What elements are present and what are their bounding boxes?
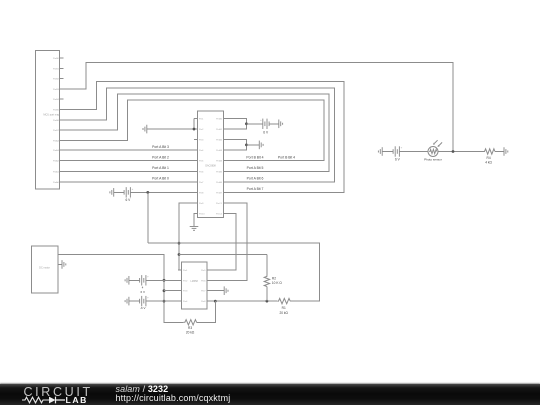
svg-text:6 V: 6 V xyxy=(126,198,132,202)
value label 6 V (V1) xyxy=(126,198,132,202)
svg-text:Pin8: Pin8 xyxy=(201,301,206,303)
svg-text:PinB4: PinB4 xyxy=(216,161,223,163)
value label 6 V (V5) xyxy=(395,158,401,162)
svg-text:PinB3: PinB3 xyxy=(216,150,223,152)
value label V4 -6 V xyxy=(140,306,146,310)
wire U1 R3-R4 loop xyxy=(227,140,246,151)
DAC U1 xyxy=(194,111,227,218)
junction F1 xyxy=(266,300,269,303)
junction B xyxy=(245,122,248,125)
svg-text:Pin4: Pin4 xyxy=(199,150,204,152)
svg-text:Port A Bit 0: Port A Bit 0 xyxy=(152,177,169,181)
wire junction B to battery V2 xyxy=(246,123,262,125)
wire U1 Pin9L down to U2 Pin1 xyxy=(179,203,194,270)
wire R1 left to U2 Pin8 xyxy=(211,300,278,302)
svg-text:DAC0808: DAC0808 xyxy=(205,164,216,167)
svg-text:Pin6: Pin6 xyxy=(201,280,206,282)
battery V2 6V xyxy=(260,118,269,129)
svg-text:PinB3: PinB3 xyxy=(53,89,60,91)
svg-text:Pin4: Pin4 xyxy=(183,301,188,303)
wire G7 to battery V4 xyxy=(129,300,140,302)
resistor R3 xyxy=(184,320,197,325)
svg-text:PinB6: PinB6 xyxy=(216,182,223,184)
wire G2 to battery V1 xyxy=(114,191,124,193)
wire net MCU p9 to U1 PinB4 (inner loop) xyxy=(64,100,325,161)
svg-text:Port B Bit 4: Port B Bit 4 xyxy=(278,155,295,159)
node Port A Bit 7 xyxy=(247,187,264,191)
wire R4 to ground G10 xyxy=(495,151,504,153)
svg-text:Pin6: Pin6 xyxy=(199,171,204,173)
wire V2 to ground G3 xyxy=(269,123,279,125)
svg-text:PinA4: PinA4 xyxy=(53,139,60,142)
node Port B Bit 4 (left) xyxy=(246,155,263,159)
svg-text:PinB6: PinB6 xyxy=(53,120,60,122)
wire U1 R1-R2 loop xyxy=(227,119,246,130)
wire MCU p10 to U1 Pin4 xyxy=(64,149,195,151)
ground G9 xyxy=(378,147,382,156)
battery V1 6V xyxy=(124,187,133,198)
svg-text:Port A Bit 7: Port A Bit 7 xyxy=(247,187,264,191)
svg-text:20 kΩ: 20 kΩ xyxy=(279,311,288,315)
svg-text:PinA0: PinA0 xyxy=(53,181,60,184)
resistor R2 xyxy=(264,275,269,286)
junction F2 xyxy=(214,300,217,303)
svg-text:R2: R2 xyxy=(272,276,276,280)
node Port A Bit 5 xyxy=(247,166,264,170)
wire U1 Pin9R to U2 Pin6 xyxy=(211,203,248,280)
svg-text:Pin8: Pin8 xyxy=(199,192,204,194)
svg-text:20 kΩ: 20 kΩ xyxy=(186,331,195,335)
wire R2 top xyxy=(266,255,268,276)
ground G10 xyxy=(504,147,508,156)
svg-text:Photo sensor: Photo sensor xyxy=(424,157,442,161)
junction (G1 bracket) xyxy=(193,128,196,131)
CircuitLab logo xyxy=(24,385,93,399)
svg-text:Pin3: Pin3 xyxy=(183,291,188,293)
junction E xyxy=(178,253,181,256)
svg-text:Port A Bit 6: Port A Bit 6 xyxy=(247,177,264,181)
svg-text:Port A Bit 1: Port A Bit 1 xyxy=(152,166,169,170)
value label R3 20k xyxy=(186,326,195,335)
battery V4 -6V xyxy=(140,296,149,307)
wire Port B Bit 4 row xyxy=(227,160,324,162)
wire Port A Bit 2 row (MCU p12 to U1 Pin6) xyxy=(64,170,195,172)
svg-text:+: + xyxy=(260,118,262,122)
wire R2 bottom xyxy=(266,287,268,302)
ground G2 xyxy=(110,188,114,197)
svg-text:6 V: 6 V xyxy=(141,290,146,294)
svg-text:PinB5: PinB5 xyxy=(216,171,223,173)
value label V3 xyxy=(141,286,146,295)
ground G7 xyxy=(125,297,129,306)
svg-text:PinA2: PinA2 xyxy=(53,160,60,163)
svg-text:LM358: LM358 xyxy=(191,280,199,283)
svg-text:PinA3: PinA3 xyxy=(53,149,60,152)
svg-text:4: 4 xyxy=(142,286,144,290)
node Port A Bit 3 xyxy=(152,145,169,149)
wire U1 Pin10L to ground xyxy=(194,213,198,226)
junction M3 xyxy=(163,300,166,303)
wire photo sensor to R4 xyxy=(438,151,484,153)
wire V5 to photo sensor xyxy=(399,151,428,153)
value label R4 4k xyxy=(485,156,492,165)
wire U1 Pin10R to U2 Pin5 xyxy=(211,213,236,269)
wire V1 to U1 Pin8 xyxy=(130,191,194,193)
svg-text:PinB2: PinB2 xyxy=(216,140,223,142)
svg-text:Pin1: Pin1 xyxy=(199,119,204,121)
svg-text:Port B Bit 4: Port B Bit 4 xyxy=(246,155,263,159)
svg-text:+: + xyxy=(401,145,403,149)
wire net MCU p6 to U1 PinB7 (outer loop) xyxy=(64,82,345,193)
wire U2 Pin7 to ground G8 xyxy=(211,290,225,292)
wire junction C to ground G4 xyxy=(246,144,259,146)
ground G5 xyxy=(190,227,199,231)
wire Port A Bit 5 row xyxy=(227,170,329,172)
ground G1 xyxy=(143,125,147,134)
svg-text:PinB4: PinB4 xyxy=(53,99,60,101)
svg-text:Pin3: Pin3 xyxy=(199,140,204,142)
svg-text:PinB1: PinB1 xyxy=(53,68,60,70)
node Port A Bit 6 xyxy=(247,177,264,181)
svg-text:+: + xyxy=(147,296,149,300)
svg-text:PinB2: PinB2 xyxy=(53,79,60,81)
junction M2 xyxy=(163,289,166,292)
svg-text:Pin5: Pin5 xyxy=(199,161,204,163)
junction C xyxy=(245,143,248,146)
svg-text:+: + xyxy=(132,187,134,191)
ground G4 xyxy=(259,141,263,150)
svg-text:Pin7: Pin7 xyxy=(199,182,204,184)
junction M1 xyxy=(163,279,166,282)
wire Port A Bit 1 row (MCU p13 to U1 Pin7) xyxy=(64,181,195,183)
node Port A Bit 0 xyxy=(152,177,169,181)
svg-text:Pin10: Pin10 xyxy=(199,213,205,215)
value label 6 V (V2) xyxy=(263,131,269,135)
svg-text:Pin7: Pin7 xyxy=(201,291,206,293)
node Port A Bit 1 xyxy=(152,166,169,170)
node Port A Bit 2 xyxy=(152,155,169,159)
DC motor M1 xyxy=(32,246,63,293)
ground (DC motor pin2) xyxy=(62,260,66,269)
wire2 (node E to R2 top) xyxy=(179,254,267,256)
wire net F (battery junction to R1 right) xyxy=(148,243,320,301)
svg-text:PinB0: PinB0 xyxy=(216,119,223,121)
wire G1 to U1 pins 1-2 xyxy=(147,119,194,130)
resistor R1 xyxy=(277,298,290,303)
wire V3 to U2 Pin2 xyxy=(146,279,178,281)
svg-text:-6 V: -6 V xyxy=(140,306,146,310)
wire G6 to battery V3 xyxy=(129,279,140,281)
svg-text:Pin2: Pin2 xyxy=(183,280,188,282)
wire junction A down xyxy=(147,192,149,243)
wire net MCU p4 to photo-sensor node xyxy=(64,63,454,152)
svg-text:PinB7: PinB7 xyxy=(53,130,60,132)
svg-text:PinC1: PinC1 xyxy=(216,203,223,205)
svg-text:+: + xyxy=(147,275,149,279)
svg-text:PinA1: PinA1 xyxy=(53,170,60,173)
svg-text:Port A Bit 5: Port A Bit 5 xyxy=(247,166,264,170)
svg-text:PinB0: PinB0 xyxy=(53,58,60,60)
MCU port map box U3 xyxy=(36,51,64,190)
resistor R4 xyxy=(483,149,495,154)
wire DC motor to R3 and U2 Pin8 node xyxy=(58,255,184,323)
svg-text:R4: R4 xyxy=(487,156,491,160)
ground G8 xyxy=(224,286,228,295)
wire net MCU p8 to U1 PinB5 xyxy=(64,94,330,171)
svg-text:R1: R1 xyxy=(282,306,286,310)
junction A xyxy=(146,191,149,194)
svg-text:4 kΩ: 4 kΩ xyxy=(485,160,492,164)
node Port B Bit 4 (right) xyxy=(278,155,295,159)
svg-text:Pin2: Pin2 xyxy=(199,129,204,131)
svg-text:PinC2: PinC2 xyxy=(216,213,223,215)
wire V4 to U2 Pin4 xyxy=(146,300,178,302)
value label Photo sensor xyxy=(424,157,442,161)
wire stub to U2 Pin3 xyxy=(164,290,178,292)
photo sensor PR1 xyxy=(428,140,442,156)
junction D xyxy=(178,242,181,245)
wire R3 right up to junction F2 xyxy=(197,301,216,322)
svg-text:PinB7: PinB7 xyxy=(216,192,223,194)
wire Port A Bit 6 row xyxy=(227,181,335,183)
junction G (sense node) xyxy=(452,150,455,153)
svg-text:6 V: 6 V xyxy=(395,158,401,162)
svg-text:Pin1: Pin1 xyxy=(183,270,188,272)
svg-text:Pin9: Pin9 xyxy=(199,203,204,205)
battery V5 6V xyxy=(393,145,402,156)
wire net MCU p7 to U1 PinB6 xyxy=(64,88,335,182)
svg-text:Pin5: Pin5 xyxy=(201,270,206,272)
svg-text:DC motor: DC motor xyxy=(39,267,50,270)
value label R2 10k xyxy=(272,276,282,285)
svg-text:6 V: 6 V xyxy=(263,131,269,135)
svg-text:Port A Bit 3: Port A Bit 3 xyxy=(152,145,169,149)
svg-text:R3: R3 xyxy=(188,326,192,330)
wire Port A Bit 3 row (MCU p11 to U1 Pin5) xyxy=(64,160,195,162)
ground G3 xyxy=(279,119,283,128)
op-amp U2 xyxy=(178,262,211,309)
wire Port A Bit 7 row xyxy=(227,191,344,193)
battery V3 6V xyxy=(140,275,149,286)
svg-text:PinB5: PinB5 xyxy=(53,110,60,112)
wire G9 to battery V5 xyxy=(382,151,393,153)
svg-text:10 K Ω: 10 K Ω xyxy=(272,281,282,285)
svg-text:MCU port map: MCU port map xyxy=(43,113,60,116)
ground G6 xyxy=(125,276,129,285)
svg-text:Port A Bit 2: Port A Bit 2 xyxy=(152,155,169,159)
svg-text:PinB1: PinB1 xyxy=(216,129,223,131)
value label R1 20k xyxy=(279,306,288,315)
